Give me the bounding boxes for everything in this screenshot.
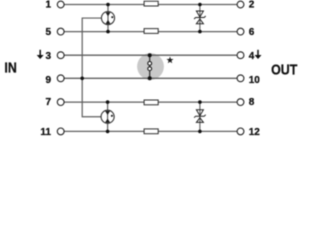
terminal 6 bbox=[237, 28, 244, 35]
svg-text:11: 11 bbox=[40, 127, 51, 138]
junction V2 bottom bbox=[198, 130, 202, 134]
svg-text:IN: IN bbox=[4, 61, 16, 77]
terminal 4 bbox=[237, 52, 244, 59]
terminal 11 bbox=[57, 128, 64, 135]
wire row terminal 5 to 6 bbox=[64, 31, 237, 33]
junction V2 top bbox=[198, 100, 202, 104]
wire through arrester F2 bbox=[107, 102, 109, 131]
wire through suppressor V2 bbox=[199, 102, 201, 131]
plug contact lower bbox=[148, 67, 152, 71]
wire through arrester F1 bbox=[107, 5, 109, 32]
junction link top bbox=[148, 53, 152, 57]
junction link bottom bbox=[148, 76, 152, 80]
terminal 10 bbox=[237, 75, 244, 82]
wire row terminal 9 to 10 bbox=[64, 77, 237, 79]
wire row terminal 1 to 2 bbox=[64, 4, 237, 6]
terminal 1 bbox=[57, 1, 64, 8]
wire row terminal 3 to 4 bbox=[64, 54, 237, 56]
terminal 12 bbox=[237, 128, 244, 135]
plug link wire bbox=[149, 55, 151, 78]
junction bus to row 9-10 bbox=[80, 77, 84, 81]
suppressor diode V1 bbox=[194, 11, 206, 24]
svg-text:1: 1 bbox=[45, 0, 51, 11]
resistor R1 bbox=[144, 1, 158, 6]
terminal 5 bbox=[57, 28, 64, 35]
terminal 2 bbox=[237, 1, 244, 8]
terminal 7 bbox=[57, 99, 64, 106]
junction F2 bottom bbox=[106, 130, 110, 134]
junction F2 top bbox=[106, 100, 110, 104]
svg-text:6: 6 bbox=[249, 27, 255, 38]
wire through suppressor V1 bbox=[199, 5, 201, 32]
svg-text:10: 10 bbox=[249, 75, 261, 86]
resistor R2 bbox=[144, 29, 158, 34]
junction V1 top bbox=[198, 3, 202, 7]
svg-text:5: 5 bbox=[45, 27, 51, 38]
gas discharge arrester F1 bbox=[101, 11, 114, 24]
gray highlight circle bbox=[137, 53, 164, 80]
svg-text:3: 3 bbox=[45, 51, 51, 62]
terminal 9 bbox=[57, 75, 64, 82]
suppressor diode V2 bbox=[194, 110, 206, 123]
wire row terminal 7 to 8 bbox=[64, 101, 237, 103]
asterisk marker bbox=[166, 56, 173, 63]
resistor R3 bbox=[144, 100, 158, 105]
svg-text:7: 7 bbox=[45, 97, 51, 108]
gas discharge arrester F2 bbox=[101, 110, 114, 123]
svg-text:8: 8 bbox=[249, 97, 255, 108]
plug contact upper bbox=[148, 62, 152, 66]
terminal 3 bbox=[57, 52, 64, 59]
svg-text:4: 4 bbox=[249, 51, 255, 62]
junction F1 bottom bbox=[106, 30, 110, 34]
resistor R4 bbox=[144, 129, 158, 134]
wire row terminal 11 to 12 bbox=[64, 130, 237, 132]
terminal 8 bbox=[237, 99, 244, 106]
junction V1 bottom bbox=[198, 30, 202, 34]
junction F1 top bbox=[106, 3, 110, 7]
ground bus wire bbox=[82, 18, 101, 117]
svg-text:9: 9 bbox=[45, 75, 51, 86]
svg-text:2: 2 bbox=[249, 0, 255, 11]
svg-text:12: 12 bbox=[249, 127, 261, 138]
ground arrow left bbox=[37, 50, 44, 59]
ground arrow right bbox=[255, 50, 262, 59]
svg-text:OUT: OUT bbox=[271, 62, 297, 78]
